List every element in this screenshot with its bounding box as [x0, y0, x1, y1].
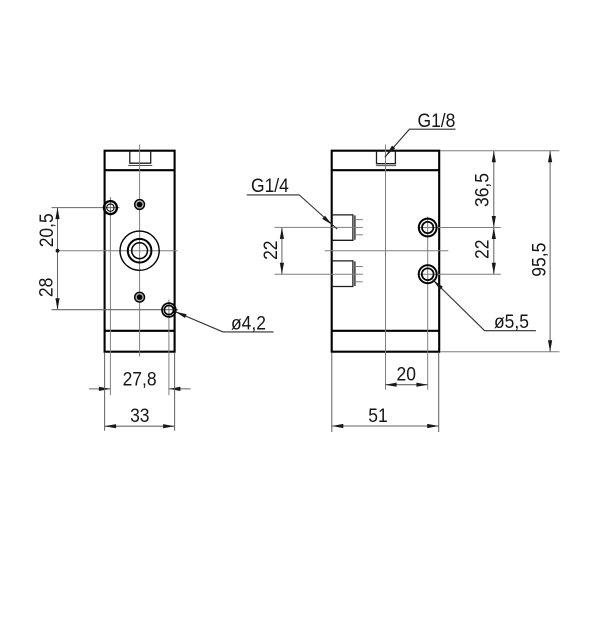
- arrow at G1/8 leader tip: [386, 146, 395, 156]
- small hole B (top-middle): [134, 199, 145, 210]
- svg-text:ø5,5: ø5,5: [494, 310, 529, 332]
- svg-text:22: 22: [471, 240, 493, 259]
- main port C (center, big counterbore): [120, 231, 159, 270]
- extension line through hole E down to 27,8 dim: [168, 300, 170, 396]
- arrow down 22 left bottom: [280, 263, 284, 275]
- dimension 27,8 right tail: [169, 388, 191, 390]
- right view top cap line: [332, 169, 440, 171]
- mounting hole E (bottom-right, crossed): [162, 303, 176, 317]
- extension line 20,5 top at hole A: [52, 207, 120, 209]
- right view body outline: [332, 151, 440, 352]
- callout G1/4 leader: [247, 195, 337, 229]
- svg-text:ø4,2: ø4,2: [231, 312, 266, 334]
- arrow up 95,5 top: [548, 151, 552, 163]
- svg-text:20,5: 20,5: [35, 213, 57, 247]
- left view top cap line: [105, 169, 175, 171]
- small hole D (bottom-middle): [134, 292, 145, 303]
- svg-text:95,5: 95,5: [528, 243, 550, 277]
- callout G1/8 leader: [385, 129, 456, 157]
- dimension 33 line: [105, 425, 175, 427]
- arrow down 95,5 bottom: [548, 340, 552, 352]
- port1 center line / 22 top extension: [275, 226, 363, 228]
- side port 2 (lower): [332, 261, 363, 287]
- top extension line to 95,5 / 36,5: [440, 150, 559, 152]
- arrow up 36,5 top: [492, 151, 496, 163]
- dimension 22 left vertical line: [281, 227, 283, 274]
- dimension 20,5 / 28 vertical line: [57, 208, 59, 310]
- svg-text:36,5: 36,5: [471, 173, 493, 207]
- dimension 36,5 / 22 right vertical line: [493, 151, 495, 275]
- callout leader o4,2: [175, 312, 273, 332]
- left view vertical centerline: [139, 145, 141, 357]
- arrow at o4,2 leader tip: [175, 312, 186, 318]
- hole G crosshair / right extension: [418, 273, 501, 275]
- hole F crosshair / right extension: [418, 227, 501, 229]
- arrow left at 27,8 right: [169, 387, 181, 391]
- right view horizontal centerline: [325, 250, 449, 252]
- dimension 51 line: [332, 425, 439, 427]
- arrow left at 51: [332, 424, 344, 428]
- extension line 51 left: [331, 353, 333, 432]
- side port 1 (G1/4 upper): [332, 215, 363, 240]
- svg-text:51: 51: [368, 405, 387, 427]
- right view notch thread line: [376, 165, 396, 167]
- left view bottom step line: [105, 330, 175, 332]
- svg-text:G1/8: G1/8: [418, 109, 456, 131]
- left view body outline: [105, 151, 175, 352]
- svg-text:22: 22: [259, 240, 281, 259]
- arrow down at 28 bottom: [55, 298, 59, 310]
- arrow right at 51: [427, 424, 439, 428]
- arrow right at 20: [416, 383, 428, 387]
- port2 center line / 22 bottom extension: [275, 273, 363, 275]
- bottom extension line to 95,5: [440, 351, 559, 353]
- svg-text:33: 33: [130, 405, 149, 427]
- arrow up 22 right top: [492, 228, 496, 240]
- hole F (upper right, crossed): [419, 219, 437, 237]
- dimension 20 line: [385, 384, 428, 386]
- right view top notch G1/8 port: [377, 151, 396, 164]
- arrow right at 33: [163, 424, 175, 428]
- arrow right at 27,8 left: [99, 387, 111, 391]
- svg-text:27,8: 27,8: [123, 368, 157, 390]
- arrow up at 20,5 top: [55, 208, 59, 220]
- mounting hole A (top-left, crossed): [104, 201, 117, 214]
- callout o5,5 leader: [433, 280, 536, 331]
- arrow left at 33: [105, 424, 117, 428]
- arrow up 22 left top: [280, 227, 284, 239]
- arrow down 22 right bottom: [492, 263, 496, 275]
- arrow down 36,5 bottom: [492, 216, 496, 228]
- right view vertical centerline: [385, 145, 387, 390]
- extension line 51 right: [438, 353, 440, 432]
- vertical extension through holes F,G down to 20 dim: [427, 217, 429, 390]
- arrow at o5,5 leader tip: [433, 280, 443, 290]
- extension line through hole A down to 27,8 dim: [109, 197, 111, 395]
- left view top notch G1/8 port: [130, 151, 151, 164]
- right view bottom step line: [332, 330, 440, 332]
- extension line 33 right: [174, 353, 176, 431]
- dimension 27,8 left tail: [89, 388, 111, 390]
- junction dot between 20,5 and 28: [56, 249, 60, 253]
- svg-text:28: 28: [35, 278, 57, 297]
- hole G (lower right, crossed): [419, 265, 437, 283]
- arrow left at 20: [385, 383, 397, 387]
- extension line 33 left: [104, 353, 106, 431]
- arrow at G1/4 leader tip: [322, 216, 332, 225]
- left view notch thread line: [128, 165, 152, 167]
- dimension 95,5 vertical line: [549, 151, 551, 352]
- left view horizontal centerline: [58, 250, 178, 252]
- svg-text:G1/4: G1/4: [251, 174, 289, 196]
- extension line 28 bottom at hole E: [52, 309, 179, 311]
- svg-text:20: 20: [396, 363, 415, 385]
